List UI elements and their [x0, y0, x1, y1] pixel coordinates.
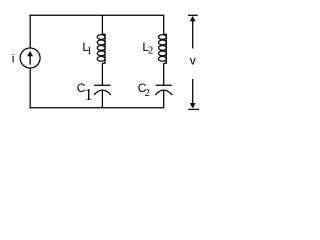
- voltage marker bottom bar: [188, 108, 199, 110]
- inductor L1: [97, 34, 105, 63]
- wire right rail lower segment: [163, 90, 165, 107]
- wire bottom rail: [29, 107, 164, 109]
- voltage marker top bar: [188, 14, 198, 16]
- svg-text:v: v: [190, 54, 196, 68]
- wire middle branch mid: [101, 63, 103, 85]
- current source I1 circle: [20, 48, 40, 68]
- inductor L2: [159, 34, 167, 63]
- wire left rail lower segment: [29, 68, 31, 108]
- voltage marker top arrow line: [192, 20, 194, 49]
- svg-text:L2: L2: [142, 40, 153, 57]
- wire right rail mid segment: [163, 63, 165, 85]
- wire top rail: [29, 14, 164, 16]
- voltage marker bottom arrowhead: [190, 103, 196, 108]
- svg-text:C1: C1: [77, 81, 93, 104]
- wire middle branch lower: [101, 90, 103, 107]
- capacitor C2 curved plate: [155, 90, 172, 95]
- capacitor C2 top plate: [156, 84, 172, 86]
- wire right rail upper segment: [163, 15, 165, 34]
- capacitor C1 top plate: [94, 84, 111, 86]
- capacitor C1 curved plate: [94, 90, 111, 95]
- wire left rail upper segment: [29, 15, 31, 48]
- wire middle branch upper: [101, 15, 103, 34]
- svg-text:C2: C2: [138, 81, 150, 99]
- svg-text:L1: L1: [82, 40, 92, 57]
- voltage marker bottom arrow line: [192, 79, 194, 104]
- current source I1 arrow: [27, 51, 33, 65]
- voltage marker top arrowhead: [190, 16, 196, 21]
- svg-text:i: i: [12, 51, 15, 65]
